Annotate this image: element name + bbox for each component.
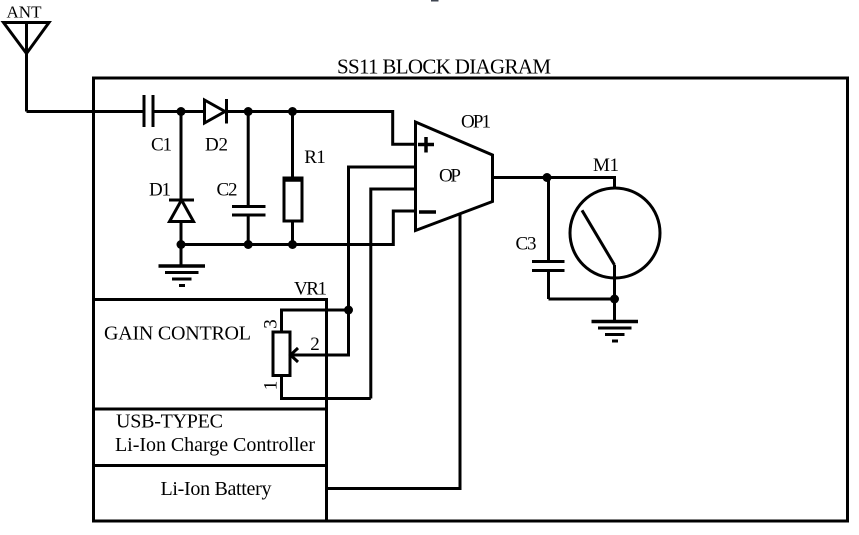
wire op-amp feedback upper (to VR1 node) [349, 167, 416, 310]
junction node at R1 tap [288, 107, 297, 116]
svg-text:SS11 BLOCK DIAGRAM: SS11 BLOCK DIAGRAM [337, 55, 551, 79]
wire antenna to C1 [27, 110, 145, 113]
diode D1 [169, 112, 194, 245]
wire op-amp feedback lower (to VR1 pin1) [371, 189, 416, 399]
op-amp minus marking [419, 210, 436, 214]
block USB-TYPEC Li-Ion Charge Controller [94, 409, 327, 466]
svg-text:3: 3 [261, 319, 282, 329]
svg-text:ANT: ANT [7, 2, 43, 21]
wire D2 to op-amp plus input [227, 112, 416, 145]
svg-text:OP: OP [439, 166, 461, 187]
wire C3 to motor bottom [549, 298, 615, 301]
svg-text:D1: D1 [149, 180, 171, 201]
motor M1 [570, 188, 660, 299]
wire ground rail to op-amp minus input [181, 211, 416, 245]
svg-text:2: 2 [310, 334, 320, 355]
ground under D1 [159, 245, 206, 286]
diode D2 [205, 99, 227, 124]
op-amp U1 OP1 [416, 122, 493, 231]
svg-text:C2: C2 [217, 180, 238, 201]
svg-text:OP1: OP1 [461, 112, 491, 133]
wire VR1 wiper pin2 [291, 310, 349, 362]
wire VR1 pin1 [282, 376, 371, 399]
junction node VR1 [344, 306, 353, 315]
svg-text:USB-TYPEC: USB-TYPEC [116, 411, 223, 433]
diagram outer box [94, 78, 848, 521]
capacitor C3 [532, 178, 565, 300]
wire C1 to D2 [153, 110, 205, 113]
wire VR1 pin3 to junction [282, 310, 349, 332]
svg-text:M1: M1 [593, 155, 619, 176]
svg-text:D2: D2 [205, 135, 228, 156]
cropped text fragment at top edge [431, 0, 439, 2]
svg-text:1: 1 [261, 381, 282, 391]
svg-text:VR1: VR1 [294, 279, 327, 300]
junction node at C2 tap [244, 107, 253, 116]
junction node C2 bottom [244, 240, 253, 249]
svg-text:C1: C1 [151, 135, 172, 156]
svg-text:C3: C3 [516, 234, 537, 255]
junction node output / C3 tap [543, 173, 552, 182]
junction node motor bottom [610, 295, 619, 304]
resistor R1 [283, 112, 304, 245]
junction node at D1 tap [177, 107, 186, 116]
antenna ANT [4, 23, 50, 112]
block GAIN CONTROL [94, 300, 327, 410]
block Li-Ion Battery [325, 466, 328, 522]
capacitor C1 [144, 95, 153, 127]
svg-text:R1: R1 [304, 147, 326, 168]
capacitor C2 [232, 112, 266, 245]
potentiometer VR1 [273, 332, 290, 376]
svg-text:Li-Ion Battery: Li-Ion Battery [161, 478, 272, 500]
svg-text:Li-Ion Charge Controller: Li-Ion Charge Controller [115, 434, 315, 456]
junction node D1 anode [177, 240, 186, 249]
ground under motor [592, 299, 639, 341]
junction node R1 bottom [288, 240, 297, 249]
wire op-amp output to motor [493, 178, 615, 189]
svg-text:GAIN CONTROL: GAIN CONTROL [104, 323, 251, 345]
wire op-amp power to battery [327, 214, 461, 489]
op-amp plus marking [418, 137, 434, 153]
